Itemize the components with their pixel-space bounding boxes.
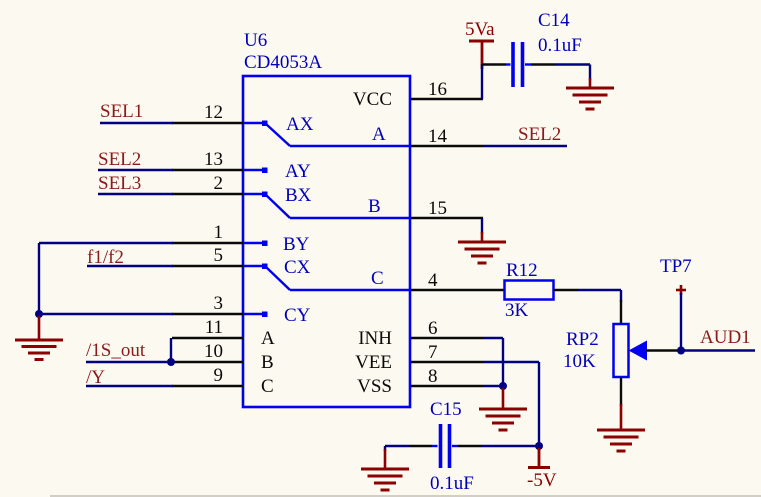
- capacitor C15: [409, 399, 481, 494]
- pin 10 (B): [172, 341, 274, 373]
- switch BY contact: [243, 234, 310, 255]
- svg-text:0.1uF: 0.1uF: [430, 473, 474, 494]
- switch CY contact: [243, 305, 311, 326]
- wire pin 3 to left vertical: [39, 313, 173, 315]
- ground pin 8: [479, 388, 527, 430]
- op-amp U6 body (CD4053A rectangle): [243, 76, 410, 407]
- svg-text:6: 6: [428, 318, 438, 339]
- capacitor C14: [482, 10, 582, 87]
- pin 7 (VEE): [355, 342, 483, 373]
- wire SEL3 to pin 2: [98, 193, 173, 195]
- svg-text:10K: 10K: [563, 351, 596, 372]
- svg-text:U6: U6: [244, 30, 267, 51]
- svg-text:3K: 3K: [505, 300, 529, 321]
- pin 11 (A): [172, 317, 275, 349]
- sheet bottom border line: [50, 495, 761, 497]
- svg-text:12: 12: [204, 102, 223, 123]
- wire 5Va down to pin 16: [481, 64, 483, 99]
- pin 8 (VSS): [357, 366, 483, 397]
- node junction pin 8: [499, 382, 507, 390]
- wire pin 8 to junction: [483, 385, 503, 387]
- node junction -5V: [535, 442, 543, 450]
- pin 13 (AY): [172, 149, 243, 170]
- wire /Y to pin 9: [86, 385, 173, 387]
- svg-text:16: 16: [428, 79, 447, 100]
- svg-text:VCC: VCC: [353, 89, 392, 110]
- svg-text:RP2: RP2: [566, 329, 599, 350]
- svg-text:7: 7: [428, 342, 438, 363]
- node junction AUD1: [677, 347, 685, 355]
- svg-text:C: C: [371, 268, 384, 289]
- svg-text:0.1uF: 0.1uF: [538, 35, 582, 56]
- potentiometer RP2: [563, 300, 647, 406]
- svg-text:BY: BY: [283, 234, 310, 255]
- svg-text:A: A: [261, 328, 275, 349]
- svg-text:SEL2: SEL2: [518, 124, 561, 145]
- svg-text:8: 8: [428, 366, 438, 387]
- wire left vertical: [38, 243, 40, 314]
- svg-text:2: 2: [214, 173, 224, 194]
- net label SEL2: [98, 149, 141, 170]
- pin 2 (BX): [172, 173, 243, 194]
- wire junction up to pin 11: [170, 338, 172, 362]
- pin 5 (CX): [172, 245, 243, 266]
- pin 16 (VCC): [353, 79, 483, 110]
- svg-text:10: 10: [204, 341, 223, 362]
- switch CX: [243, 257, 411, 290]
- svg-text:-5V: -5V: [527, 470, 557, 491]
- net label f1/f2: [87, 247, 124, 268]
- svg-text:SEL1: SEL1: [100, 101, 143, 122]
- wire /1S_out to pin 10: [86, 361, 171, 363]
- pin 9 (C): [172, 365, 274, 397]
- wire R12 to RP2 top: [578, 289, 621, 291]
- resistor R12: [483, 260, 578, 321]
- pin 12 (AX): [172, 102, 243, 123]
- ground C14: [566, 78, 614, 109]
- net label /Y: [86, 367, 105, 388]
- wire SEL2 to pin 13: [98, 169, 173, 171]
- svg-text:SEL3: SEL3: [98, 173, 141, 194]
- testpoint TP7: [660, 256, 692, 295]
- pin 6 (INH): [358, 318, 483, 349]
- power 5Va: [465, 19, 495, 69]
- ground RP2: [597, 404, 645, 451]
- svg-text:C15: C15: [430, 399, 462, 420]
- svg-text:9: 9: [214, 365, 224, 386]
- svg-text:C14: C14: [538, 10, 570, 31]
- svg-text:A: A: [372, 124, 386, 145]
- svg-text:CY: CY: [284, 305, 311, 326]
- switch BX: [243, 185, 411, 218]
- wire pin 15 down: [481, 218, 483, 234]
- svg-text:CX: CX: [284, 257, 311, 278]
- wire SEL1 to pin 12: [100, 122, 173, 124]
- svg-text:13: 13: [204, 149, 223, 170]
- net label AUD1: [700, 327, 751, 348]
- pin 14 (A out): [411, 126, 483, 147]
- svg-text:B: B: [368, 196, 381, 217]
- ground left: [15, 316, 63, 360]
- wire C14 right to ground: [556, 63, 590, 65]
- wire pin 1 to left vertical: [39, 242, 173, 244]
- svg-text:CD4053A: CD4053A: [244, 52, 322, 73]
- svg-text:/1S_out: /1S_out: [86, 340, 146, 361]
- svg-text:C: C: [261, 376, 274, 397]
- svg-text:R12: R12: [506, 260, 538, 281]
- power -5V: [527, 448, 557, 491]
- svg-text:15: 15: [428, 198, 447, 219]
- svg-text:SEL2: SEL2: [98, 149, 141, 170]
- wire AUD1 right: [681, 349, 755, 351]
- wire pin 14 to SEL2: [483, 145, 567, 147]
- node junction left: [35, 310, 43, 318]
- wire TP7 down to junction: [680, 293, 682, 351]
- svg-text:BX: BX: [285, 185, 312, 206]
- svg-text:INH: INH: [358, 328, 392, 349]
- net label /1S_out: [86, 340, 146, 361]
- pin 3 (CY): [172, 293, 243, 314]
- svg-text:VSS: VSS: [357, 376, 392, 397]
- net label SEL3: [98, 173, 141, 194]
- net label SEL1: [100, 101, 143, 122]
- wire wiper to AUD1 junction: [646, 349, 681, 351]
- wire C15 left to ground: [385, 445, 409, 447]
- wire C15 right to -5V node: [481, 445, 539, 447]
- svg-text:AUD1: AUD1: [700, 327, 751, 348]
- svg-text:14: 14: [428, 126, 448, 147]
- pin 4 (C out): [411, 270, 483, 291]
- wire pin 6 right and down: [483, 337, 503, 339]
- svg-text:5: 5: [214, 245, 224, 266]
- wire pin 7 right and down to -5V node: [483, 361, 539, 363]
- svg-text:TP7: TP7: [660, 256, 692, 277]
- svg-text:B: B: [261, 352, 274, 373]
- ground pin 15: [458, 232, 506, 263]
- net label SEL2 right: [518, 124, 561, 145]
- wire f1/f2 to pin 5: [87, 265, 173, 267]
- svg-text:AX: AX: [286, 114, 314, 135]
- svg-text:4: 4: [428, 270, 438, 291]
- ground C15: [361, 449, 409, 490]
- svg-text:AY: AY: [285, 161, 311, 182]
- svg-text:11: 11: [205, 317, 223, 338]
- switch AX: [243, 114, 411, 146]
- node junction pin10/11: [167, 358, 175, 366]
- pin 15 (B out): [411, 198, 483, 219]
- svg-text:5Va: 5Va: [465, 19, 495, 40]
- svg-text:1: 1: [214, 222, 224, 243]
- pin 1 (BY): [172, 222, 243, 243]
- svg-text:VEE: VEE: [355, 352, 392, 373]
- switch AY contact: [243, 161, 311, 182]
- svg-text:3: 3: [214, 293, 224, 314]
